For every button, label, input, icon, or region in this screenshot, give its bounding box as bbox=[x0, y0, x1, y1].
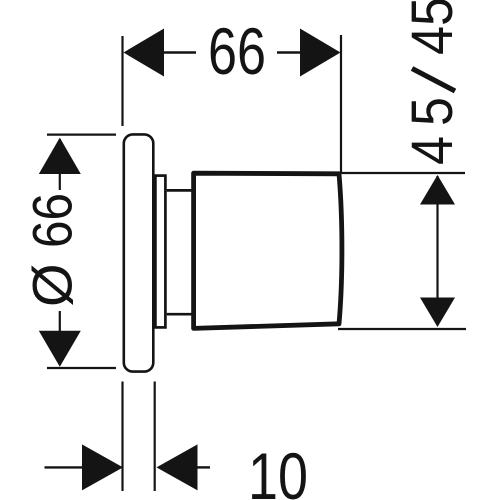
svg-text:4: 4 bbox=[400, 26, 465, 55]
svg-text:10: 10 bbox=[248, 440, 308, 500]
svg-text:Ø: Ø bbox=[21, 263, 84, 307]
svg-text:5: 5 bbox=[400, 97, 465, 126]
svg-text:66: 66 bbox=[21, 193, 84, 248]
svg-text:66: 66 bbox=[208, 15, 266, 88]
svg-text:4: 4 bbox=[400, 136, 465, 165]
svg-text:5: 5 bbox=[400, 0, 465, 26]
